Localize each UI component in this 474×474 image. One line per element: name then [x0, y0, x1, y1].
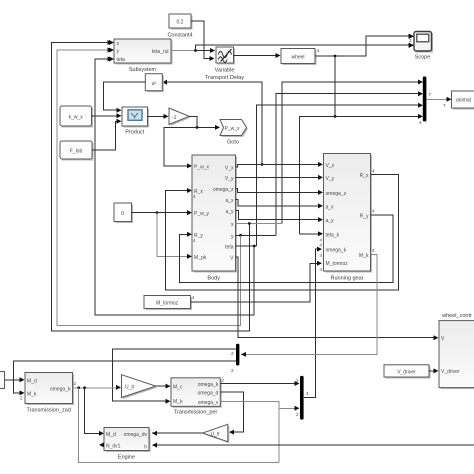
- svg-text:omega_z: omega_z: [213, 187, 234, 193]
- constant C4 value 0.2: [167, 14, 192, 39]
- wire demux D1 output 2 to Transmission_zad M_k: [14, 361, 236, 401]
- wire V_x branch to u2: [162, 80, 263, 166]
- wire Running gear R_x wrap to Body R_x: [166, 175, 399, 290]
- wire F_lob to Product input 3: [92, 119, 122, 150]
- wire k_w_x to Product input 2: [92, 113, 122, 118]
- block V_driver: [384, 365, 431, 379]
- block Variable Transport Delay U1: [205, 47, 244, 81]
- svg-text:omega_d: omega_d: [197, 391, 218, 397]
- subsystem Body: [192, 155, 237, 282]
- block k_w_x: [60, 106, 93, 128]
- svg-text:2: 2: [20, 396, 23, 401]
- constant C0 value 0: [114, 203, 133, 223]
- svg-text:Subsystem: Subsystem: [129, 67, 157, 73]
- svg-text:Transmission_per: Transmission_per: [174, 410, 218, 416]
- wire Body x output with wrap to Subsystem x: [52, 40, 283, 331]
- demux D1: [231, 344, 239, 373]
- svg-text:4: 4: [320, 253, 323, 258]
- block F_lob: [60, 141, 94, 161]
- svg-text:P_w_x: P_w_x: [224, 126, 240, 132]
- svg-text:R_y: R_y: [360, 213, 369, 219]
- wire Running gear R_y wrap to Body R_y: [179, 215, 393, 283]
- svg-text:2: 2: [74, 381, 77, 386]
- svg-text:4: 4: [193, 194, 196, 199]
- block wheel_controller (clipped at right edge): [439, 313, 474, 389]
- subsystem Engine (mirrored): [99, 428, 151, 461]
- wire Body V_x to Running gear V_x: [236, 162, 324, 167]
- svg-text:4: 4: [192, 295, 195, 300]
- wire demux D1 output 1 to Transmission_per M_k: [113, 349, 237, 404]
- svg-text:V_y: V_y: [225, 176, 234, 182]
- wire Transmission_zad omega_k to U_tr gain with branches: [73, 385, 122, 390]
- svg-text:2: 2: [296, 412, 299, 417]
- svg-text:U_tr: U_tr: [125, 385, 135, 391]
- svg-text:4: 4: [193, 238, 196, 243]
- block animation (clipped at right edge): [452, 91, 474, 110]
- wire h input from right edge to Engine h: [152, 443, 474, 448]
- inport In1 (clipped at left edge): [0, 372, 5, 389]
- svg-text:2: 2: [222, 378, 225, 383]
- wire wheel output branch down to teta_k node: [334, 56, 337, 118]
- svg-text:U_tr: U_tr: [211, 431, 221, 437]
- svg-text:-1: -1: [172, 115, 177, 121]
- svg-text:0: 0: [121, 211, 124, 217]
- svg-text:4: 4: [320, 267, 323, 272]
- svg-text:2: 2: [231, 368, 234, 373]
- subsystem wheel: [281, 48, 320, 65]
- block Product: [122, 107, 149, 136]
- svg-text:a_y: a_y: [326, 218, 335, 224]
- wire Transmission_per omega_d to gain U_tr1: [220, 392, 243, 434]
- wire V_driver to wheel_controller: [429, 368, 439, 373]
- svg-text:4: 4: [419, 120, 422, 125]
- svg-text:wheel: wheel: [291, 55, 304, 61]
- svg-text:teta: teta: [225, 245, 234, 251]
- svg-text:R_x: R_x: [360, 173, 369, 179]
- svg-text:M_c: M_c: [173, 385, 183, 391]
- subsystem Transmission_per: [171, 378, 225, 416]
- svg-text:2: 2: [231, 351, 234, 356]
- svg-text:omega_z: omega_z: [326, 191, 347, 197]
- subsystem Running gear: [320, 154, 376, 282]
- svg-text:Goto: Goto: [227, 140, 239, 146]
- svg-text:F_lob: F_lob: [70, 149, 83, 155]
- svg-text:M_pk: M_pk: [194, 255, 207, 261]
- svg-text:omega_dv: omega_dv: [124, 432, 148, 438]
- svg-text:Body: Body: [207, 276, 220, 282]
- wire omega_k_zad branch to Engine M_d: [85, 388, 104, 436]
- svg-text:P_w_y: P_w_y: [194, 211, 210, 217]
- mux M2: [296, 376, 304, 420]
- wire Body omega_z to Running gear omega_z: [236, 189, 324, 195]
- svg-text:V_y: V_y: [326, 176, 335, 182]
- svg-text:7: 7: [429, 92, 432, 97]
- svg-text:M_k: M_k: [359, 253, 369, 259]
- wire mux M2 output to Running gear omega_k: [304, 247, 322, 398]
- wire omega_k_zad branch down to mux M2 input 2 via bottom: [79, 388, 279, 463]
- svg-text:4: 4: [317, 48, 320, 53]
- wire Body V output to wheel_controller V input: [236, 257, 439, 340]
- goto tag P_w_x: [220, 120, 248, 146]
- svg-text:Transport Delay: Transport Delay: [205, 75, 244, 81]
- svg-text:0.2: 0.2: [177, 20, 184, 26]
- wire M_tormoz to Running gear M_tormoz input: [191, 261, 323, 302]
- wire teta_k to mux input 4 and Running gear teta_k: [300, 114, 423, 236]
- svg-text:a_y: a_y: [225, 209, 234, 215]
- svg-text:a_x: a_x: [225, 198, 234, 204]
- svg-text:V_driver: V_driver: [397, 369, 416, 375]
- wire teta_rul from Subsystem to VTD u input with branch to Scope: [171, 43, 414, 53]
- svg-text:a_x: a_x: [326, 204, 335, 210]
- svg-text:teta_rul: teta_rul: [152, 49, 169, 55]
- wire node y to mux input 2: [276, 91, 423, 235]
- svg-text:Product: Product: [125, 130, 144, 136]
- svg-text:M_tormoz: M_tormoz: [326, 261, 349, 267]
- svg-text:4: 4: [372, 209, 375, 214]
- svg-text:M_tormoz: M_tormoz: [156, 301, 179, 307]
- svg-text:M_k: M_k: [27, 392, 37, 398]
- wire Running gear M_k wrap to demux D1: [241, 255, 377, 357]
- wire Transmission_per omega_k to mux M2 input 1: [220, 381, 299, 386]
- svg-text:Variable: Variable: [215, 68, 235, 74]
- wire VTD output to wheel: [234, 53, 281, 58]
- svg-text:animat: animat: [456, 98, 472, 104]
- wire U_tr output to Transmission_per M_c: [156, 384, 171, 389]
- gain U_tr: [122, 375, 158, 399]
- wire u2 output to Product input 1: [104, 82, 146, 113]
- svg-text:V_x: V_x: [326, 163, 335, 169]
- svg-text:omega_k: omega_k: [198, 382, 219, 388]
- wire Body y output with wrap to Subsystem y: [57, 48, 276, 326]
- svg-text:Transmission_zad: Transmission_zad: [26, 408, 70, 414]
- scope Scope: [409, 32, 433, 61]
- svg-text:4: 4: [372, 169, 375, 174]
- subsystem Subsystem: [109, 39, 173, 73]
- wire wheel output to Scope input 1: [315, 34, 414, 58]
- wire node teta to mux input 3: [257, 103, 424, 246]
- svg-text:2: 2: [409, 38, 412, 43]
- svg-text:M_d: M_d: [106, 432, 116, 438]
- wire Transmission_per omega_v down to bottom rail and mux M2 input 2: [220, 401, 299, 462]
- svg-text:7: 7: [443, 103, 446, 108]
- svg-text:k_w_x: k_w_x: [69, 115, 84, 121]
- svg-text:omega_k: omega_k: [326, 248, 347, 254]
- math block u2: [145, 74, 164, 93]
- wire U_tr1 output to Engine omega_dv: [152, 431, 203, 436]
- block M_tormoz: [144, 295, 195, 310]
- svg-text:M_k: M_k: [173, 399, 183, 405]
- wire constant 0 to Body P_w_y and M_pk: [132, 210, 193, 259]
- subsystem Transmission_zad: [25, 373, 77, 414]
- wire Body a_y to Running gear a_y: [236, 210, 324, 222]
- svg-text:4: 4: [372, 248, 375, 253]
- gain G1 value -1: [169, 108, 191, 126]
- mux M1 (animation mux): [419, 77, 432, 126]
- svg-text:h: h: [144, 444, 147, 450]
- svg-text:Scope: Scope: [415, 55, 431, 61]
- svg-text:teta: teta: [117, 57, 126, 63]
- svg-text:4: 4: [320, 243, 323, 248]
- svg-text:M_d: M_d: [27, 378, 37, 384]
- svg-text:Running gear: Running gear: [330, 276, 363, 282]
- wire mux M1 output to animation block: [426, 97, 451, 108]
- wire Constant4 to VTD ti input: [191, 21, 215, 61]
- svg-text:teta_k: teta_k: [326, 232, 340, 238]
- svg-text:P_w_x: P_w_x: [194, 165, 210, 171]
- svg-text:V_x: V_x: [225, 165, 234, 171]
- wire Body teta output with wrap to Subsystem teta: [95, 57, 257, 315]
- gain U_tr1 (mirrored): [203, 424, 230, 443]
- wire Body a_x to Running gear a_x: [236, 200, 324, 209]
- wire Body V_y to Running gear V_y: [236, 175, 324, 180]
- svg-text:omega_v: omega_v: [198, 400, 219, 406]
- wire Gain output to Goto and Body P_w_x: [164, 116, 220, 168]
- svg-text:u²: u²: [152, 81, 157, 87]
- svg-text:omega_k: omega_k: [50, 387, 71, 393]
- svg-text:N_dv1: N_dv1: [106, 444, 121, 450]
- wire Product output to Gain: [148, 114, 169, 119]
- svg-text:2: 2: [296, 378, 299, 383]
- svg-text:Engine: Engine: [118, 455, 135, 461]
- svg-text:Constant4: Constant4: [167, 33, 192, 39]
- wire node x to mux input 1: [282, 80, 423, 224]
- svg-text:V_driver: V_driver: [441, 369, 460, 375]
- svg-text:wheel_contr: wheel_contr: [441, 313, 472, 319]
- wire In1 to Transmission_zad M_d: [5, 377, 25, 382]
- svg-text:4: 4: [306, 391, 309, 396]
